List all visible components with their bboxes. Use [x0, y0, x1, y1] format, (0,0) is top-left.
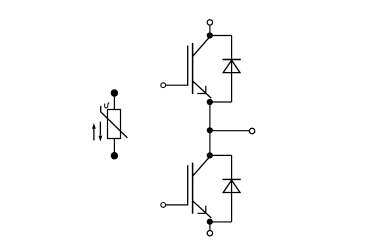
wire node E1 to node C2 (midpoint rail) [209, 102, 211, 155]
thermistor body rectangle [108, 110, 121, 139]
diode D1 cathode bar [223, 59, 241, 61]
Q2 gate terminal [161, 203, 166, 208]
junction node E2 [207, 219, 213, 225]
Q2 emitter arrow barbs [197, 206, 205, 214]
Q1 gate terminal [161, 83, 166, 88]
wire Q1 gate lead [166, 84, 188, 86]
wire top terminal to node C1 [209, 25, 211, 35]
thermistor top terminal dot [111, 89, 118, 96]
junction node C1 [207, 32, 213, 38]
wire node C2 to diode D2 branch [210, 154, 232, 156]
Q2 emitter stroke [193, 201, 212, 218]
wire thermistor bottom lead [113, 139, 115, 156]
thermistor bottom terminal dot [111, 152, 118, 159]
junction node C2 [207, 152, 213, 158]
Q1 gate bar [187, 46, 189, 86]
diode D2 cathode bar [223, 178, 241, 180]
terminal 1 (top collector terminal) [207, 20, 212, 25]
thermistor down arrow [99, 122, 103, 142]
transistor Q2 (bottom IGBT) [161, 157, 211, 218]
junction node M (output) [207, 127, 213, 133]
thermistor up arrow [92, 123, 96, 140]
Q2 gate bar [187, 165, 189, 205]
wire node E2 to bottom terminal [209, 222, 211, 231]
thermistor R1 (NTC) [101, 89, 128, 159]
wire diode D1 bottom to node E1 [210, 101, 232, 103]
wire diode D2 branch vertical [231, 155, 233, 221]
wire diode D1 branch vertical [231, 36, 233, 103]
terminal 3 (bottom emitter terminal) [207, 231, 212, 236]
junction node E1 [207, 99, 213, 105]
Q1 body bar [192, 43, 194, 94]
wire thermistor top lead [113, 93, 115, 110]
Q1 emitter stroke [193, 81, 212, 98]
Q1 emitter arrow barbs [197, 86, 205, 94]
wire diode D2 bottom to node E2 [210, 221, 232, 223]
wire output node to terminal [210, 130, 249, 132]
Q1 collector stroke [193, 37, 210, 56]
Q2 body bar [192, 163, 194, 214]
transistor Q1 (top IGBT) [161, 37, 211, 98]
Q2 collector stroke [193, 157, 210, 176]
diode D1 triangle [223, 60, 240, 72]
thermistor theta label [105, 103, 110, 108]
wire node C1 to diode D1 branch [210, 35, 232, 37]
diode D2 triangle [223, 180, 240, 192]
thermistor diagonal stroke [101, 106, 128, 138]
terminal 2 (AC output terminal) [249, 128, 254, 133]
wire Q2 gate lead [166, 204, 188, 206]
